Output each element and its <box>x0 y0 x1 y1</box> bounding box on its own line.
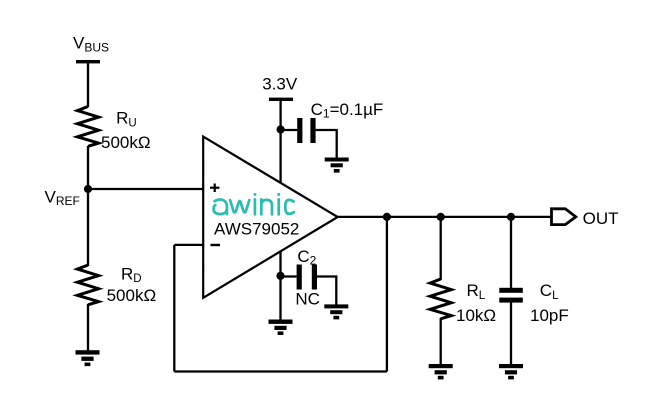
ground below RL <box>429 364 453 379</box>
svg-text:10pF: 10pF <box>530 306 569 325</box>
op-amp minus sign <box>211 244 221 246</box>
capacitor C2 <box>297 265 317 290</box>
wire feedback bottom horizontal <box>174 370 387 372</box>
wire op-amp bottom pin <box>279 251 281 321</box>
op-amp plus sign <box>210 184 219 193</box>
resistor RU <box>77 107 98 147</box>
wire feedback left vertical <box>173 245 175 372</box>
wire feedback right vertical to output <box>386 217 388 372</box>
op-amp U1 <box>203 137 338 298</box>
wire VREF to op-amp plus input <box>88 188 204 190</box>
wire 3.3V bar to op-amp top edge <box>279 99 281 184</box>
node output junction dot <box>383 213 391 221</box>
wire RL bottom to ground <box>440 318 442 365</box>
wire RU bottom to VREF node <box>87 146 89 190</box>
wire RL top <box>440 217 442 280</box>
ground at C1 <box>325 158 349 173</box>
3.3V supply bar <box>269 98 293 101</box>
wire CL top <box>510 217 512 289</box>
capacitor CL <box>499 288 523 303</box>
node C1 junction dot <box>277 125 285 133</box>
awinic logo i dots <box>254 193 281 196</box>
wire feedback minus input <box>174 244 204 246</box>
wire VREF node to RD top <box>87 189 89 266</box>
terminal OUT <box>552 209 576 225</box>
ground below op-amp <box>269 320 293 336</box>
awinic logo <box>214 199 294 214</box>
wire junction to C1 left plate <box>281 129 298 131</box>
wire C2 right plate to ground <box>317 277 336 306</box>
wire RD bottom to ground <box>87 304 89 351</box>
wire CL bottom to ground <box>510 302 512 365</box>
svg-text:10kΩ: 10kΩ <box>456 306 496 325</box>
node VREF junction dot <box>84 185 92 193</box>
ground below RD <box>76 350 100 366</box>
wire VBUS bar to RU top <box>87 62 89 107</box>
wire C1 right plate to ground <box>316 130 337 159</box>
svg-text:3.3V: 3.3V <box>262 74 298 93</box>
capacitor C1 <box>297 118 315 143</box>
svg-text:500kΩ: 500kΩ <box>107 286 157 305</box>
resistor RL <box>430 279 451 319</box>
wire output rail <box>338 216 552 218</box>
svg-text:C1=0.1µF: C1=0.1µF <box>311 100 384 121</box>
svg-text:NC: NC <box>295 290 320 309</box>
node C2 junction dot <box>276 272 284 280</box>
resistor RD <box>77 265 98 305</box>
node RL junction dot <box>437 213 445 221</box>
wire junction to C2 left plate <box>281 275 297 277</box>
ground at C2 <box>324 304 348 319</box>
svg-text:OUT: OUT <box>583 209 619 228</box>
ground below CL <box>499 364 523 379</box>
VBUS supply bar <box>76 60 100 63</box>
svg-text:500kΩ: 500kΩ <box>101 133 151 152</box>
svg-text:AWS79052: AWS79052 <box>214 220 299 239</box>
node CL junction dot <box>507 213 515 221</box>
